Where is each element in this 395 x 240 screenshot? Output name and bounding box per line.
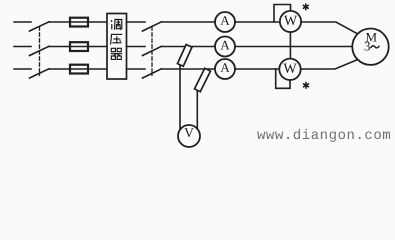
label W of wattmeter W1 <box>284 16 297 25</box>
wattmeter W2 <box>279 59 300 80</box>
label 3~ of motor <box>365 42 370 51</box>
regulator character 压 (hand drawn strokes) <box>111 34 123 44</box>
fuse F1 <box>70 18 88 27</box>
fuse FV2 (tilted, from L3) <box>195 68 211 91</box>
wire L1 to motor (bend) <box>301 22 358 34</box>
wire L3 ammeter to wattmeter W2 <box>235 68 279 70</box>
wire L3 to motor (bend) <box>301 60 358 69</box>
regulator character 器 (hand drawn strokes) <box>111 48 123 59</box>
wire W1 to L2 to W2 (common) <box>289 32 291 59</box>
label V of voltmeter <box>184 128 193 137</box>
ammeter A3 <box>215 59 235 79</box>
wire voltmeter right drop <box>196 90 198 129</box>
label A of ammeter A3 <box>220 63 229 72</box>
wire L1 ammeter to wattmeter W1 <box>235 21 280 23</box>
wattmeter W1 <box>280 11 301 32</box>
asterisk marker of W1 <box>303 4 308 10</box>
ammeter A2 <box>215 37 235 57</box>
switch QS2 phase-1 blade <box>143 22 162 31</box>
switch QS2 linkage (dashed) <box>151 27 153 76</box>
motor M circle <box>352 29 388 65</box>
wattmeter W1 voltage-coil loop <box>274 5 291 23</box>
wire L1 to ammeter A1 <box>162 21 216 23</box>
switch QS2 phase-2 blade <box>143 46 162 55</box>
fuse F2 <box>70 42 88 51</box>
wire L3 to fuse F3 <box>49 68 107 70</box>
wattmeter W2 voltage-coil loop <box>276 69 290 88</box>
wire L1 to fuse F1 <box>49 21 107 23</box>
wire L2 ammeter to motor <box>235 46 352 48</box>
fuse F3 <box>70 65 88 74</box>
wire voltmeter left drop <box>179 65 181 130</box>
wire L3 stub right of box <box>127 68 146 70</box>
switch QS1 phase-2 blade <box>30 46 50 55</box>
label W of wattmeter W2 <box>283 64 296 73</box>
wire L2 left stub <box>14 46 31 48</box>
voltmeter V <box>178 125 200 147</box>
switch QS1 phase-3 blade <box>30 69 50 78</box>
wire L3 left stub <box>14 68 31 70</box>
switch QS1 linkage (dashed) <box>39 27 41 76</box>
voltage regulator box <box>107 14 127 80</box>
label A of ammeter A1 <box>220 16 229 25</box>
wire L1 stub right of box <box>127 21 146 23</box>
wire L2 to ammeter A2 <box>162 46 216 48</box>
switch QS2 phase-3 blade <box>143 69 162 78</box>
switch QS1 phase-1 blade <box>30 22 50 31</box>
watermark www.diangon.com <box>257 129 390 142</box>
regulator character 调 (hand drawn strokes) <box>111 20 122 30</box>
label A of ammeter A2 <box>220 41 229 50</box>
wire L3 to ammeter A3 <box>162 68 216 70</box>
motor tilde <box>371 46 379 48</box>
label M of motor <box>366 33 377 42</box>
ammeter A1 <box>215 12 235 32</box>
wire L2 stub right of box <box>127 46 146 48</box>
wire L1 left stub <box>14 21 31 23</box>
fuse FV1 (tilted, from L2) <box>177 45 192 67</box>
wire L2 to fuse F2 <box>49 46 107 48</box>
asterisk marker of W2 <box>304 82 309 88</box>
